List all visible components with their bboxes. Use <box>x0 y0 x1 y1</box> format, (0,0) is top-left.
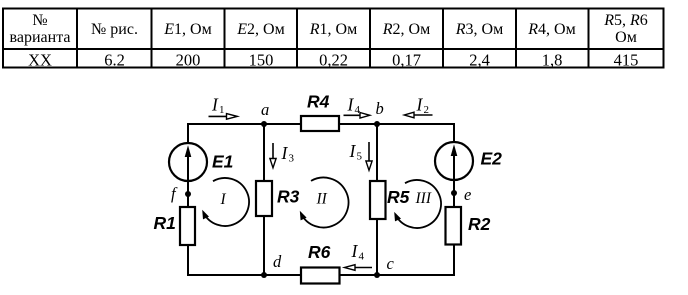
svg-text:1,8: 1,8 <box>542 51 563 70</box>
svg-text:№ рис.: № рис. <box>91 21 138 38</box>
svg-text:4: 4 <box>359 251 365 263</box>
wire left: vertical through E1 and R1 <box>187 123 189 276</box>
table data cells <box>28 51 638 70</box>
svg-text:R3: R3 <box>277 187 300 207</box>
svg-text:III: III <box>415 190 432 207</box>
svg-text:5: 5 <box>357 151 363 163</box>
svg-text:6.2: 6.2 <box>104 51 125 70</box>
svg-text:E1, Ом: E1, Ом <box>163 21 211 38</box>
svg-text:4: 4 <box>355 104 361 116</box>
svg-text:II: II <box>316 191 328 208</box>
svg-text:d: d <box>273 252 282 271</box>
current arrow I4 top <box>344 114 361 116</box>
svg-text:E2: E2 <box>481 149 503 169</box>
current arrow I2 <box>414 114 433 116</box>
resistor R2 <box>446 207 462 245</box>
resistor R4 <box>301 116 339 131</box>
svg-text:R4, Ом: R4, Ом <box>527 21 575 38</box>
node b <box>374 121 380 127</box>
svg-text:415: 415 <box>614 51 639 70</box>
svg-text:I: I <box>281 143 289 163</box>
wire branch a-d through R3 <box>263 124 265 275</box>
loop arrow II <box>301 178 349 228</box>
svg-text:c: c <box>387 254 395 273</box>
source E1 circle <box>169 143 207 181</box>
node a <box>261 121 267 127</box>
svg-text:1: 1 <box>219 104 225 116</box>
node f <box>185 191 191 197</box>
loop arrow I <box>203 178 249 226</box>
resistor R1 <box>180 207 195 245</box>
svg-text:XX: XX <box>28 51 52 70</box>
resistor R3 <box>256 181 272 216</box>
svg-text:0,22: 0,22 <box>319 51 348 70</box>
svg-text:I: I <box>351 241 359 261</box>
svg-text:R2, Ом: R2, Ом <box>382 21 430 38</box>
svg-text:I: I <box>416 95 424 115</box>
wire bottom rail through d, R6, c <box>188 274 454 276</box>
svg-text:b: b <box>376 99 384 118</box>
source E1 arrow <box>187 155 189 181</box>
svg-text:I: I <box>349 141 357 161</box>
svg-text:R1, Ом: R1, Ом <box>309 21 357 38</box>
svg-text:I: I <box>220 191 227 208</box>
svg-text:R5: R5 <box>387 187 410 207</box>
svg-text:R1: R1 <box>154 213 176 233</box>
svg-text:I: I <box>347 95 355 115</box>
svg-text:R2: R2 <box>468 214 491 234</box>
node c <box>374 272 380 278</box>
node e <box>451 190 457 196</box>
svg-text:R5, R6: R5, R6 <box>603 12 648 29</box>
svg-text:R4: R4 <box>307 92 330 112</box>
svg-text:150: 150 <box>249 51 274 70</box>
svg-text:3: 3 <box>289 153 295 165</box>
current arrow I1 <box>209 115 227 117</box>
source E2 arrow <box>453 154 455 180</box>
current arrow I5 <box>368 142 370 161</box>
data table grid <box>3 9 664 68</box>
svg-text:R3, Ом: R3, Ом <box>455 21 503 38</box>
svg-text:E2, Ом: E2, Ом <box>236 21 284 38</box>
svg-text:200: 200 <box>176 51 201 70</box>
loop arrow III <box>395 180 441 228</box>
svg-text:I: I <box>211 95 219 115</box>
svg-text:0,17: 0,17 <box>392 51 421 70</box>
svg-text:варианта: варианта <box>10 29 71 46</box>
wire top rail from left corner through a, R4, b to right corner <box>188 123 454 125</box>
source E2 circle <box>435 142 473 180</box>
current arrow I4 bottom <box>355 267 372 269</box>
resistor R5 <box>370 181 386 219</box>
resistor R6 <box>301 268 340 284</box>
svg-text:e: e <box>464 185 471 204</box>
svg-text:f: f <box>171 184 178 203</box>
svg-text:2: 2 <box>424 104 430 116</box>
svg-text:2,4: 2,4 <box>469 51 490 70</box>
svg-text:E1: E1 <box>212 152 233 172</box>
svg-text:Ом: Ом <box>615 29 637 46</box>
svg-text:a: a <box>261 100 269 119</box>
wire branch b-c through R5 <box>376 124 378 275</box>
svg-text:№: № <box>32 12 47 29</box>
current arrow I3 <box>272 143 274 159</box>
svg-text:R6: R6 <box>308 242 331 262</box>
node d <box>261 272 267 278</box>
wire right: vertical through E2 and R2 <box>453 123 455 276</box>
table header cells <box>10 12 648 46</box>
